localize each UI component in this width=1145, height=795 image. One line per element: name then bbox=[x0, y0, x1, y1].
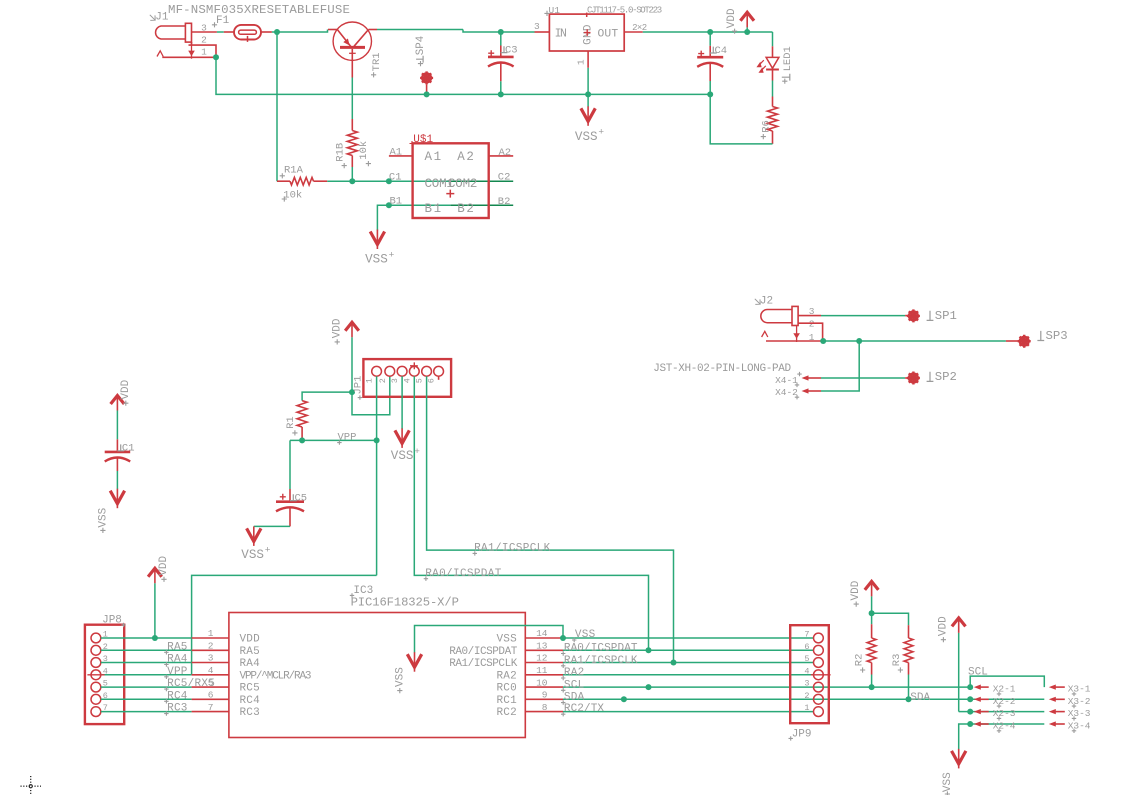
svg-text:LED1: LED1 bbox=[782, 46, 794, 71]
svg-text:VPP/^MCLR/RA3: VPP/^MCLR/RA3 bbox=[240, 670, 311, 682]
svg-text:COM2: COM2 bbox=[448, 177, 477, 191]
svg-text:6: 6 bbox=[427, 378, 437, 383]
svg-text:1: 1 bbox=[575, 59, 586, 65]
svg-text:RC5: RC5 bbox=[240, 683, 260, 695]
svg-text:C4: C4 bbox=[715, 45, 728, 57]
svg-text:MF-NSMF035XRESETABLEFUSE: MF-NSMF035XRESETABLEFUSE bbox=[168, 3, 350, 17]
svg-text:4: 4 bbox=[208, 665, 214, 676]
svg-text:RA2: RA2 bbox=[496, 670, 516, 682]
svg-text:2×2: 2×2 bbox=[632, 23, 647, 33]
svg-text:IN: IN bbox=[555, 28, 566, 41]
svg-text:VSS: VSS bbox=[575, 629, 596, 641]
svg-text:RC4: RC4 bbox=[240, 695, 261, 707]
svg-text:10: 10 bbox=[536, 677, 548, 688]
svg-text:VSS: VSS bbox=[241, 548, 264, 562]
svg-text:3: 3 bbox=[201, 23, 207, 34]
svg-text:VSS: VSS bbox=[98, 507, 110, 527]
svg-text:VPP: VPP bbox=[167, 666, 188, 678]
svg-text:11: 11 bbox=[536, 665, 548, 676]
svg-text:A1: A1 bbox=[425, 150, 443, 164]
svg-text:VDD: VDD bbox=[726, 8, 738, 28]
svg-text:2: 2 bbox=[378, 378, 388, 383]
svg-text:C3: C3 bbox=[505, 44, 518, 56]
svg-text:+: + bbox=[389, 249, 395, 260]
svg-text:A2: A2 bbox=[499, 147, 512, 159]
svg-text:R3: R3 bbox=[891, 654, 903, 667]
svg-text:RA1/ICSPCLK: RA1/ICSPCLK bbox=[449, 658, 518, 670]
svg-text:6: 6 bbox=[208, 690, 214, 701]
svg-text:C1: C1 bbox=[389, 171, 402, 183]
svg-text:X3-1: X3-1 bbox=[1068, 684, 1091, 695]
svg-text:SP4: SP4 bbox=[415, 36, 427, 55]
svg-text:VDD: VDD bbox=[240, 634, 261, 646]
svg-text:X2-3: X2-3 bbox=[993, 708, 1016, 719]
svg-text:B1: B1 bbox=[425, 202, 443, 216]
svg-text:4: 4 bbox=[402, 378, 412, 383]
svg-text:VDD: VDD bbox=[331, 318, 343, 338]
svg-text:RA5: RA5 bbox=[167, 641, 188, 653]
svg-text:B2: B2 bbox=[457, 202, 475, 216]
svg-text:JP1: JP1 bbox=[353, 376, 365, 395]
svg-text:SP2: SP2 bbox=[935, 370, 957, 384]
svg-text:6: 6 bbox=[804, 642, 809, 652]
svg-text:13: 13 bbox=[536, 641, 548, 652]
svg-text:VDD: VDD bbox=[938, 616, 950, 636]
svg-text:VSS: VSS bbox=[391, 449, 414, 463]
svg-text:J2: J2 bbox=[760, 295, 773, 307]
svg-text:R1B: R1B bbox=[334, 143, 346, 162]
svg-text:4: 4 bbox=[804, 666, 809, 676]
svg-text:RC3: RC3 bbox=[167, 703, 188, 715]
svg-text:5: 5 bbox=[804, 654, 809, 664]
svg-text:8: 8 bbox=[542, 702, 548, 713]
svg-text:2: 2 bbox=[804, 691, 809, 701]
svg-text:X2-2: X2-2 bbox=[993, 696, 1016, 707]
svg-text:PIC16F18325-X/P: PIC16F18325-X/P bbox=[351, 595, 459, 609]
svg-text:RA0/ICSPDAT: RA0/ICSPDAT bbox=[425, 568, 502, 580]
svg-text:14: 14 bbox=[536, 628, 548, 639]
svg-text:RC4: RC4 bbox=[167, 690, 188, 702]
svg-text:7: 7 bbox=[208, 702, 214, 713]
svg-text:VPP: VPP bbox=[338, 431, 357, 443]
svg-text:12: 12 bbox=[536, 653, 548, 664]
svg-text:X2-4: X2-4 bbox=[993, 721, 1016, 732]
svg-text:2: 2 bbox=[201, 35, 207, 46]
svg-text:TR1: TR1 bbox=[371, 52, 383, 71]
svg-text:3: 3 bbox=[809, 306, 815, 317]
svg-text:VSS: VSS bbox=[496, 634, 517, 646]
svg-text:RC2/TX: RC2/TX bbox=[564, 703, 605, 715]
svg-text:U$1: U$1 bbox=[413, 134, 433, 146]
svg-text:RC2: RC2 bbox=[496, 707, 516, 719]
svg-text:JP8: JP8 bbox=[102, 614, 122, 626]
svg-text:JST-XH-02-PIN-LONG-PAD: JST-XH-02-PIN-LONG-PAD bbox=[653, 363, 791, 375]
svg-text:RA0/ICSPDAT: RA0/ICSPDAT bbox=[449, 646, 518, 658]
svg-text:+: + bbox=[265, 545, 271, 556]
svg-text:J1: J1 bbox=[155, 11, 169, 23]
svg-text:VDD: VDD bbox=[850, 580, 862, 600]
svg-text:B2: B2 bbox=[498, 196, 511, 208]
svg-text:RA1/ICSPCLK: RA1/ICSPCLK bbox=[474, 543, 551, 555]
svg-text:7: 7 bbox=[804, 630, 809, 640]
svg-text:RA4: RA4 bbox=[167, 654, 188, 666]
svg-text:X4-2: X4-2 bbox=[775, 387, 798, 398]
svg-text:C1: C1 bbox=[122, 443, 135, 455]
svg-text:SP3: SP3 bbox=[1046, 329, 1068, 343]
svg-text:X3-2: X3-2 bbox=[1068, 696, 1091, 707]
svg-text:VSS: VSS bbox=[575, 130, 598, 144]
svg-text:3: 3 bbox=[208, 653, 214, 664]
svg-text:1: 1 bbox=[804, 703, 809, 713]
svg-text:RA1/ICSPCLK: RA1/ICSPCLK bbox=[564, 655, 638, 667]
svg-text:RA4: RA4 bbox=[240, 658, 261, 670]
svg-text:10k: 10k bbox=[358, 141, 370, 160]
svg-text:VSS: VSS bbox=[394, 667, 406, 687]
svg-text:A2: A2 bbox=[457, 150, 475, 164]
svg-text:F1: F1 bbox=[216, 15, 230, 27]
svg-text:SDA: SDA bbox=[910, 692, 930, 704]
svg-text:9: 9 bbox=[542, 690, 548, 701]
svg-text:RA0/ICSPDAT: RA0/ICSPDAT bbox=[564, 643, 638, 655]
svg-text:+: + bbox=[598, 127, 604, 138]
svg-text:2: 2 bbox=[208, 641, 214, 652]
svg-text:R6: R6 bbox=[760, 120, 772, 133]
svg-text:B1: B1 bbox=[390, 195, 403, 207]
svg-text:3: 3 bbox=[534, 21, 540, 32]
svg-text:VDD: VDD bbox=[158, 555, 170, 575]
svg-text:RC3: RC3 bbox=[240, 707, 260, 719]
svg-text:U1: U1 bbox=[549, 5, 561, 16]
svg-text:SP1: SP1 bbox=[935, 309, 957, 323]
svg-text:RA5: RA5 bbox=[240, 646, 260, 658]
svg-text:R2: R2 bbox=[853, 654, 865, 667]
svg-text:RC1: RC1 bbox=[496, 695, 517, 707]
svg-text:VDD: VDD bbox=[120, 379, 132, 399]
svg-text:VSS: VSS bbox=[365, 253, 388, 267]
svg-text:RA2: RA2 bbox=[564, 667, 585, 679]
svg-text:X2-1: X2-1 bbox=[993, 684, 1016, 695]
svg-text:X4-1: X4-1 bbox=[775, 375, 798, 386]
svg-text:RC0: RC0 bbox=[496, 683, 516, 695]
svg-text:SDA: SDA bbox=[564, 692, 585, 704]
svg-text:C2: C2 bbox=[498, 172, 511, 184]
svg-text:5: 5 bbox=[415, 378, 425, 383]
svg-text:X3-3: X3-3 bbox=[1068, 708, 1091, 719]
svg-text:1: 1 bbox=[201, 47, 207, 58]
svg-text:R1: R1 bbox=[285, 416, 297, 429]
svg-text:VSS: VSS bbox=[942, 772, 954, 792]
svg-text:+: + bbox=[414, 446, 420, 457]
svg-text:SCL: SCL bbox=[564, 679, 585, 691]
svg-text:RC5/RX5: RC5/RX5 bbox=[167, 678, 215, 690]
svg-text:1: 1 bbox=[208, 628, 214, 639]
svg-text:3: 3 bbox=[804, 679, 809, 689]
svg-text:CJT1117-5.0-SOT223: CJT1117-5.0-SOT223 bbox=[587, 5, 662, 15]
svg-text:JP9: JP9 bbox=[792, 729, 812, 741]
svg-text:R1A: R1A bbox=[284, 165, 304, 177]
svg-text:A1: A1 bbox=[390, 146, 403, 158]
svg-text:OUT: OUT bbox=[597, 29, 618, 41]
svg-text:3: 3 bbox=[390, 378, 400, 383]
svg-text:X3-4: X3-4 bbox=[1068, 721, 1091, 732]
svg-text:C5: C5 bbox=[295, 492, 308, 504]
svg-text:1: 1 bbox=[365, 378, 375, 383]
svg-text:GND: GND bbox=[583, 24, 595, 45]
